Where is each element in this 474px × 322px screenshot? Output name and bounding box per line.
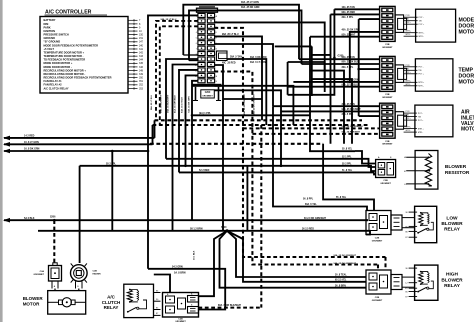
mesh horizontal 46 xyxy=(275,45,312,47)
svg-text:(9A) 1 PPL: (9A) 1 PPL xyxy=(199,112,211,115)
svg-text:95A .35 DK BLU: 95A .35 DK BLU xyxy=(342,61,360,64)
wire to harness arrow 2 xyxy=(4,143,153,145)
mesh vertical 287 xyxy=(287,62,289,95)
wire 9A PPL long xyxy=(192,114,310,116)
connector C2B grommet right terminals xyxy=(188,296,199,303)
svg-text:41A .35 GRY/BLK: 41A .35 GRY/BLK xyxy=(174,95,177,113)
svg-text:58 1.2 BRN: 58 1.2 BRN xyxy=(190,227,203,230)
svg-text:RELAY: RELAY xyxy=(444,227,461,233)
connector C2B heater round xyxy=(71,265,88,282)
svg-text:"B" GROUND: "B" GROUND xyxy=(44,40,61,44)
svg-text:342: 342 xyxy=(139,51,144,54)
connector C2B air inlet xyxy=(380,103,396,138)
connector C200 pin pair row 9 xyxy=(198,57,205,61)
connector C200 label xyxy=(201,90,215,98)
svg-text:353: 353 xyxy=(139,87,144,90)
low blower relay box xyxy=(415,206,437,242)
svg-text:BLOWER: BLOWER xyxy=(445,164,467,170)
dashed bundle line 3 xyxy=(243,127,378,129)
wire air row1 xyxy=(273,105,380,107)
svg-text:36 2.5 RED: 36 2.5 RED xyxy=(302,229,314,231)
svg-text:C2B: C2B xyxy=(383,180,388,182)
mesh horizontal 99 xyxy=(223,98,262,100)
svg-text:98A .35 BLK/WHT: 98A .35 BLK/WHT xyxy=(342,108,362,111)
air inlet valve motor box xyxy=(415,105,453,137)
connector C200 pin pair row 2 xyxy=(198,19,205,23)
svg-text:BLOWER: BLOWER xyxy=(23,296,44,301)
svg-text:36 .8 BRN: 36 .8 BRN xyxy=(335,285,346,287)
connector C2B blower resistor xyxy=(376,160,396,178)
svg-text:GROMMET: GROMMET xyxy=(372,240,383,242)
svg-text:BLOWER: BLOWER xyxy=(441,221,463,227)
svg-text:POT +: POT + xyxy=(419,24,425,26)
svg-text:GROMMET: GROMMET xyxy=(382,97,393,99)
wire air row3 xyxy=(359,115,380,117)
wire S200 branch 2 xyxy=(220,231,367,288)
svg-text:58A .35 DK GRN/WHT: 58A .35 DK GRN/WHT xyxy=(253,93,256,115)
svg-text:+5 VOLT: +5 VOLT xyxy=(44,47,55,51)
wire fan drop 3 from C200 xyxy=(160,26,198,125)
connector C200 pin pair row 7 xyxy=(198,46,205,50)
svg-text:HIGH: HIGH xyxy=(446,272,459,278)
svg-text:POT -: POT - xyxy=(419,17,424,19)
svg-text:347: 347 xyxy=(139,41,144,44)
svg-text:S206: S206 xyxy=(50,217,56,219)
svg-text:MODE DOOR MOTOR +: MODE DOOR MOTOR + xyxy=(44,61,73,65)
connector C200 body xyxy=(197,8,218,12)
svg-text:55 .8 YEL: 55 .8 YEL xyxy=(342,149,353,151)
dashed vertical 261 80A circuit xyxy=(260,125,262,308)
svg-text:52 2 RED: 52 2 RED xyxy=(199,169,210,172)
svg-text:54 1 BLK: 54 1 BLK xyxy=(193,250,196,260)
svg-text:TEMPERATURE DOOR MOTOR -: TEMPERATURE DOOR MOTOR - xyxy=(44,54,84,58)
wire low relay row4 entry xyxy=(365,231,370,235)
svg-text:93A .35 DK GRN/WHT: 93A .35 DK GRN/WHT xyxy=(334,254,357,257)
wire 5A BRN run xyxy=(154,275,170,293)
svg-text:48C .35 RED: 48C .35 RED xyxy=(222,62,236,65)
svg-text:IGNITION: IGNITION xyxy=(44,29,56,33)
svg-text:351: 351 xyxy=(139,80,144,83)
svg-text:MTR +: MTR + xyxy=(418,128,425,130)
dashed bundle line 2 xyxy=(153,124,369,126)
svg-text:TEMPERATURE DOOR MOTOR +: TEMPERATURE DOOR MOTOR + xyxy=(44,50,85,54)
svg-text:POT-: POT- xyxy=(406,111,411,113)
connector C200 pin pair row 13 xyxy=(198,79,205,83)
svg-text:96A .35 RED: 96A .35 RED xyxy=(342,11,356,14)
wire battery feed top inner xyxy=(189,10,302,64)
svg-text:30A .5 LT GRN: 30A .5 LT GRN xyxy=(250,61,266,64)
wire resistor row bends xyxy=(355,151,376,164)
svg-text:16 .8 DK GRN: 16 .8 DK GRN xyxy=(24,148,40,151)
svg-text:343: 343 xyxy=(139,55,144,58)
wire mesh right exit 1 xyxy=(214,22,324,86)
svg-text:340: 340 xyxy=(139,44,144,47)
wire S200 branch 4 xyxy=(227,231,366,282)
svg-text:98A .35 LT BLU: 98A .35 LT BLU xyxy=(222,33,239,36)
wire drop to C2A grommet dashed xyxy=(53,220,55,263)
wire riser arrow1 to dashed bundle xyxy=(154,120,156,138)
A/C clutch relay box xyxy=(124,284,154,317)
svg-text:94A .35 TAN: 94A .35 TAN xyxy=(342,56,355,59)
svg-text:345: 345 xyxy=(139,62,144,65)
junction ppl trunk xyxy=(357,68,360,71)
junction dot 9A xyxy=(191,114,194,117)
connector C200 pin pair row 12 xyxy=(198,73,205,77)
svg-text:DIM: DIM xyxy=(44,22,49,26)
connector C200 pin pair row 11 xyxy=(198,68,205,72)
connector C200 bottom bar xyxy=(193,84,222,87)
wire mesh right exit 6 to splice xyxy=(214,65,223,231)
wire blower resistor row2 xyxy=(166,158,362,160)
wire high relay plug stubs xyxy=(402,276,415,278)
svg-text:POT -: POT - xyxy=(418,67,423,69)
svg-text:RECIRCULATING DOOR MOTOR -: RECIRCULATING DOOR MOTOR - xyxy=(44,72,86,76)
wire blower resistor row4 xyxy=(179,171,374,173)
svg-text:MTR +: MTR + xyxy=(418,82,425,84)
svg-text:36A .5 PPL: 36A .5 PPL xyxy=(342,113,354,116)
svg-text:38A .5 TAN: 38A .5 TAN xyxy=(230,56,242,59)
wire blower feed vertical 112 xyxy=(111,151,113,231)
connector C200 pin pair row 1 xyxy=(198,13,205,17)
connector C2B high blower relay xyxy=(366,270,391,294)
svg-text:GROMMET: GROMMET xyxy=(382,47,393,49)
A/C clutch relay pins xyxy=(154,292,161,294)
svg-text:POT +: POT + xyxy=(418,120,424,122)
svg-text:150: 150 xyxy=(139,34,144,37)
svg-text:POT +: POT + xyxy=(418,74,424,76)
wire air row4 dashed tail xyxy=(378,127,380,129)
svg-text:POT+: POT+ xyxy=(406,118,412,120)
wire temp row3 xyxy=(359,68,380,70)
svg-text:BATTERY: BATTERY xyxy=(44,18,56,22)
junction G200 dot xyxy=(333,57,336,60)
junction dot 281 row3 xyxy=(280,165,283,168)
scanner edge shadow xyxy=(0,0,3,322)
A/C clutch relay core spring xyxy=(130,290,139,301)
connector C200 pin pair row 10 xyxy=(198,62,205,66)
svg-text:POT+: POT+ xyxy=(406,22,412,24)
svg-text:16 .8 LT GRN: 16 .8 LT GRN xyxy=(24,141,39,144)
splice S206 dot xyxy=(53,219,56,222)
connector C200 legs xyxy=(195,87,197,101)
svg-text:60A .5 YEL: 60A .5 YEL xyxy=(305,203,317,206)
svg-text:S200: S200 xyxy=(221,227,227,229)
svg-text:GROMMET: GROMMET xyxy=(34,274,45,276)
wire mesh right exit 4 xyxy=(214,44,273,106)
wire high relay dashed row2 bend xyxy=(377,265,379,271)
svg-text:MODE DOOR MOTOR -: MODE DOOR MOTOR - xyxy=(44,65,72,69)
svg-text:MTR-: MTR- xyxy=(406,34,411,36)
connector C200 pin pair row 5 xyxy=(198,35,205,39)
wire ppl trunk vertical xyxy=(358,19,360,116)
svg-text:341: 341 xyxy=(139,48,144,51)
blower resistor stubs xyxy=(406,156,428,158)
svg-text:A/C: A/C xyxy=(107,295,116,300)
mesh horizontal 70 xyxy=(310,71,344,144)
blower resistor element xyxy=(425,154,431,187)
mesh horizontal 79 xyxy=(312,79,352,144)
wire temp row1 xyxy=(299,58,380,60)
svg-text:5: 5 xyxy=(196,38,197,40)
svg-text:PARK: PARK xyxy=(44,25,51,29)
svg-text:MTR+: MTR+ xyxy=(406,127,412,129)
svg-text:5A 2 BLK: 5A 2 BLK xyxy=(24,217,35,220)
svg-text:MTR -: MTR - xyxy=(419,36,425,38)
svg-text:MTR -: MTR - xyxy=(418,132,424,134)
svg-text:GROMMET: GROMMET xyxy=(202,95,213,97)
svg-text:39A .35 TAN: 39A .35 TAN xyxy=(342,103,355,106)
svg-text:FAN RELAY #2: FAN RELAY #2 xyxy=(44,83,63,87)
svg-text:CLUTCH: CLUTCH xyxy=(102,300,121,305)
svg-text:GROUND: GROUND xyxy=(44,36,56,40)
wire C2B heater drop xyxy=(79,166,81,263)
wire to harness arrow 1 xyxy=(4,137,155,139)
wire battery feed top outer xyxy=(183,5,299,60)
connector C200 pin pair row 6 xyxy=(198,41,205,45)
A/C clutch relay contact xyxy=(127,311,129,313)
wire dashed 80A OR out of C2B grommet xyxy=(198,307,261,309)
wire mesh right exit 3 xyxy=(214,36,262,120)
wire stub connector top-left row1 xyxy=(183,54,198,56)
wire mode row1 xyxy=(334,8,379,10)
svg-text:RELAY: RELAY xyxy=(444,283,461,289)
wire fan drop 8 from C200 xyxy=(192,81,198,220)
junction dot 112 xyxy=(111,150,114,153)
svg-text:MTR -: MTR - xyxy=(418,86,424,88)
wire temp row2 xyxy=(302,63,380,65)
svg-text:RECIRCULATING DOOR MOTOR +: RECIRCULATING DOOR MOTOR + xyxy=(44,68,87,72)
svg-text:HEATER: HEATER xyxy=(93,273,102,276)
blower motor box xyxy=(48,291,86,315)
svg-text:346: 346 xyxy=(139,66,144,69)
svg-text:14 2 RED: 14 2 RED xyxy=(24,135,35,138)
wire long 230 row xyxy=(38,230,365,232)
wire blower resistor row3 long xyxy=(80,165,368,167)
connector C200 pin pair row 4 xyxy=(198,30,205,34)
svg-text:FAN RELAY #1: FAN RELAY #1 xyxy=(44,79,63,83)
wire fan drop 6 from C200 xyxy=(179,70,198,172)
svg-text:5A .8 BRN: 5A .8 BRN xyxy=(174,272,186,275)
svg-text:RESISTOR: RESISTOR xyxy=(445,170,470,176)
wire mode row2 xyxy=(331,13,380,15)
wire trunk 323 to low relay row1 xyxy=(323,144,374,211)
svg-text:PRESSURE SWITCH: PRESSURE SWITCH xyxy=(44,33,69,37)
svg-text:52 1 PPL: 52 1 PPL xyxy=(342,157,352,159)
connector C2B low blower relay xyxy=(366,211,391,235)
blower motor symbol xyxy=(48,301,59,303)
mode door motor box xyxy=(416,9,456,42)
wire S200 branch 3 xyxy=(227,231,366,277)
svg-text:55 .8 YEL: 55 .8 YEL xyxy=(336,197,347,199)
svg-text:349: 349 xyxy=(139,73,144,76)
wire mesh right exit 5 xyxy=(227,59,266,125)
svg-text:C2B: C2B xyxy=(385,94,390,96)
wire C2A to blower box xyxy=(54,289,56,291)
svg-text:30A .5 DK GRN: 30A .5 DK GRN xyxy=(250,56,267,59)
wire mesh right exit 2 dashed xyxy=(214,28,385,257)
svg-text:POT -: POT - xyxy=(418,113,423,115)
svg-text:MTR+: MTR+ xyxy=(406,80,412,82)
svg-text:39A .35 DK GRN/WHT: 39A .35 DK GRN/WHT xyxy=(243,93,246,115)
svg-text:63A .35 LT BLU: 63A .35 LT BLU xyxy=(181,97,184,113)
svg-text:MODE DOOR FEEDBACK POTENTIOMET: MODE DOOR FEEDBACK POTENTIOMETER xyxy=(44,43,99,47)
wire air row2 xyxy=(281,110,380,112)
svg-text:C2B: C2B xyxy=(385,141,390,143)
svg-text:C2B: C2B xyxy=(93,271,98,273)
svg-text:7: 7 xyxy=(196,49,197,51)
svg-text:MOTOR: MOTOR xyxy=(461,127,474,133)
wire stub connector top-left row2 xyxy=(189,60,198,62)
svg-text:RECIRCULATING DOOR FEEDBACK PO: RECIRCULATING DOOR FEEDBACK POTENTIOMETE… xyxy=(44,76,112,80)
svg-text:LOW: LOW xyxy=(446,216,458,222)
svg-text:98A .35 LT BLU: 98A .35 LT BLU xyxy=(150,94,153,110)
svg-text:93A .35 LT GRN: 93A .35 LT GRN xyxy=(342,79,359,82)
wire temp row4 xyxy=(293,81,379,83)
svg-text:92A .35 WHT: 92A .35 WHT xyxy=(342,33,356,36)
mesh vertical 326 xyxy=(330,14,332,143)
svg-text:36A .5 PPL: 36A .5 PPL xyxy=(342,16,354,19)
svg-text:LO: LO xyxy=(404,184,407,186)
svg-text:RELAY: RELAY xyxy=(104,305,119,310)
svg-text:58A .35 BLK/WHT: 58A .35 BLK/WHT xyxy=(167,94,170,113)
svg-text:51 .8 YEL: 51 .8 YEL xyxy=(342,170,353,172)
svg-text:GROMMET: GROMMET xyxy=(380,183,391,185)
wire riser arrow2 to dashed bundle xyxy=(152,125,154,144)
svg-text:MTR-: MTR- xyxy=(406,130,411,132)
wire S200 branch 1 xyxy=(198,231,227,296)
junction dot mode-temp row4 xyxy=(349,81,352,84)
junction dot arrow3 xyxy=(147,150,150,153)
wire mode row3 xyxy=(359,18,380,20)
connector C2A grommet xyxy=(49,266,62,282)
svg-text:MOTOR: MOTOR xyxy=(459,30,474,36)
connector C2B grommet bottom xyxy=(163,293,199,318)
wire C2B to blower box xyxy=(78,289,80,291)
svg-text:TD FEEDBACK POTENTIOMETER: TD FEEDBACK POTENTIOMETER xyxy=(44,58,86,62)
svg-text:91A .35 LT BLU: 91A .35 LT BLU xyxy=(342,83,359,86)
svg-text:MOTOR: MOTOR xyxy=(23,301,40,306)
svg-text:63 2.0 DK GRN/WHT: 63 2.0 DK GRN/WHT xyxy=(304,218,327,220)
wire mode row4 xyxy=(350,32,380,82)
svg-text:C2B: C2B xyxy=(375,297,380,299)
svg-text:MTR-: MTR- xyxy=(406,84,411,86)
wire fan drop 1 from C200 xyxy=(148,15,198,268)
connector C200 side lock tab xyxy=(217,51,228,61)
wire mode row5 xyxy=(310,36,380,38)
connector C2A pins down xyxy=(51,281,53,289)
high blower relay box xyxy=(415,265,438,300)
wire mesh right exit 8 xyxy=(214,86,293,125)
svg-text:151: 151 xyxy=(139,37,144,40)
svg-text:6: 6 xyxy=(196,43,197,45)
splice S200 dot xyxy=(226,229,229,232)
A/C clutch relay coil xyxy=(127,290,132,302)
wire high relay dashed row1 bend xyxy=(384,257,386,270)
svg-text:352: 352 xyxy=(139,84,144,87)
wire 54 GRN run xyxy=(148,269,225,310)
svg-text:56 .8 PPL: 56 .8 PPL xyxy=(303,198,314,200)
svg-text:97A .35 LT GRN/BLK: 97A .35 LT GRN/BLK xyxy=(342,125,364,128)
svg-text:54 2 GRN: 54 2 GRN xyxy=(172,265,183,268)
wire drop 247 solid xyxy=(246,166,248,231)
svg-text:40A .35 DK GRN: 40A .35 DK GRN xyxy=(342,29,360,32)
svg-text:C2B: C2B xyxy=(375,238,380,240)
wire fan drop 4 from C200 xyxy=(166,59,198,159)
svg-text:65 2.5 YEL: 65 2.5 YEL xyxy=(335,280,347,282)
svg-text:A/C CLUTCH RELAY: A/C CLUTCH RELAY xyxy=(44,86,69,90)
wire temp row5 xyxy=(288,86,380,88)
svg-text:30A .35 LT GRN: 30A .35 LT GRN xyxy=(241,1,259,4)
svg-text:94A .35 DK GRN/WHT: 94A .35 DK GRN/WHT xyxy=(334,262,357,265)
wire fan drop 7 from C200 xyxy=(186,75,198,165)
junction dot resistor tap xyxy=(184,165,187,168)
temp door motor box xyxy=(415,59,453,91)
svg-text:36A .5 PPL: 36A .5 PPL xyxy=(342,66,354,69)
svg-text:348: 348 xyxy=(139,69,144,72)
svg-text:GROMMET: GROMMET xyxy=(382,144,393,146)
svg-text:30 .8 TEAL: 30 .8 TEAL xyxy=(335,274,347,277)
wire fan drop 2 from C200 xyxy=(156,21,198,120)
A/C controller box xyxy=(40,17,128,94)
svg-text:55 2 PPL: 55 2 PPL xyxy=(342,164,352,166)
connector C2B pins down xyxy=(75,282,77,289)
mesh horizontal 94 xyxy=(288,9,335,95)
svg-text:MTR+: MTR+ xyxy=(406,31,412,33)
mesh horizontal 54 xyxy=(312,54,331,56)
svg-text:16A .35 TAN: 16A .35 TAN xyxy=(342,6,355,9)
svg-text:39A .35 BLK/WHT: 39A .35 BLK/WHT xyxy=(160,94,163,113)
wire fan drop 5 from C200 xyxy=(173,65,198,231)
svg-text:MTR +: MTR + xyxy=(419,33,426,35)
svg-text:POT-: POT- xyxy=(406,65,411,67)
connector C2B temp door xyxy=(380,56,396,91)
svg-text:344: 344 xyxy=(139,59,144,62)
svg-text:4: 4 xyxy=(196,32,197,34)
svg-text:POT-: POT- xyxy=(406,15,411,17)
wire trunk to low relay row2 xyxy=(273,106,367,210)
svg-text:BLOWER: BLOWER xyxy=(441,277,463,283)
wire low relay row3 entry xyxy=(366,219,368,221)
svg-text:30A .35 DK GRN: 30A .35 DK GRN xyxy=(241,6,260,9)
svg-text:350: 350 xyxy=(139,77,144,80)
svg-text:55 2 PPL: 55 2 PPL xyxy=(106,163,117,166)
dashed bundle line 1 xyxy=(155,119,363,121)
svg-text:C2A: C2A xyxy=(40,270,45,273)
svg-text:POT+: POT+ xyxy=(406,72,412,74)
svg-text:MOTOR: MOTOR xyxy=(459,79,474,85)
svg-text:98A .35 LT BLU: 98A .35 LT BLU xyxy=(161,18,177,21)
svg-text:96A .35 PNK/WHT: 96A .35 PNK/WHT xyxy=(342,131,361,134)
blower resistor box xyxy=(415,151,438,190)
wire mesh right exit 7 dashed xyxy=(214,72,378,265)
dashed bundle line 4 xyxy=(252,133,378,135)
wire low relay plug stubs xyxy=(402,217,415,219)
svg-text:C2B: C2B xyxy=(385,44,390,46)
svg-text:80A .5 OR BLK/WHT: 80A .5 OR BLK/WHT xyxy=(218,304,241,307)
mesh vertical 310 xyxy=(310,37,355,152)
wire 142 dashed long xyxy=(150,143,323,145)
connector C200 pin pair row 8 xyxy=(198,52,205,56)
wire to harness arrow 3 long to blower resistor xyxy=(4,150,148,152)
wire to harness arrow 4 long xyxy=(4,219,368,221)
svg-text:C200: C200 xyxy=(205,92,211,94)
mesh horizontal 62 xyxy=(288,62,325,92)
connector C200 pin pair row 3 xyxy=(198,24,205,28)
svg-text:72A .35 DK GRN: 72A .35 DK GRN xyxy=(188,96,191,113)
svg-text:GROMMET: GROMMET xyxy=(372,300,383,302)
wire mesh right exit 9 xyxy=(214,90,281,166)
connector C2B mode door xyxy=(380,6,396,41)
